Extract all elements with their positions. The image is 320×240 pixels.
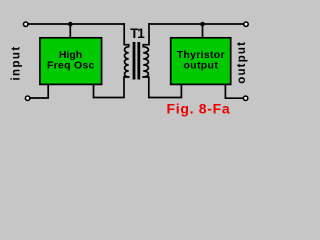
terminal top-left: [24, 22, 28, 26]
terminal bottom-left: [25, 96, 29, 100]
svg-text:Fig. 8-Fa: Fig. 8-Fa: [167, 101, 231, 117]
wire junction lead to thyristor box: [202, 24, 204, 38]
wire oscillator to transformer primary bottom: [94, 77, 129, 98]
wire bottom-left from terminal to oscillator: [30, 85, 48, 98]
wire top-left horizontal: [29, 23, 125, 25]
svg-text:output: output: [236, 41, 248, 84]
svg-text:Freq Osc: Freq Osc: [47, 60, 95, 72]
block Thyristor output: [171, 38, 231, 85]
wire thyristor to bottom-right terminal: [225, 85, 243, 98]
block High Freq Osc: [40, 38, 102, 85]
wire top-right horizontal: [149, 23, 243, 25]
terminal bottom-right: [243, 96, 247, 100]
junction node right: [200, 22, 205, 27]
svg-text:T1: T1: [130, 26, 145, 41]
wire transformer primary top lead: [124, 24, 129, 47]
wire junction lead to oscillator box: [69, 24, 71, 38]
transformer T1 secondary winding: [143, 47, 148, 77]
terminal top-right: [244, 22, 248, 26]
wire transformer secondary bottom to thyristor: [143, 77, 181, 98]
junction node left: [68, 22, 73, 27]
transformer core bar right: [137, 42, 140, 80]
wire transformer secondary top lead: [143, 24, 149, 47]
svg-text:output: output: [183, 60, 218, 72]
transformer core bar left: [133, 42, 136, 80]
svg-text:input: input: [11, 45, 23, 80]
transformer T1 primary winding: [125, 47, 129, 77]
